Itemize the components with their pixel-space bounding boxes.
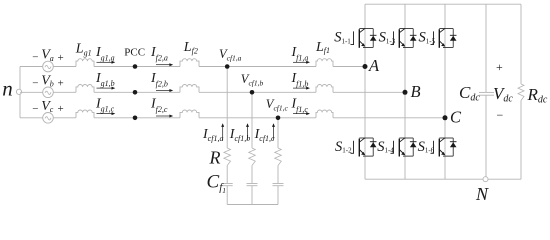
svg-text:+: + xyxy=(496,60,503,74)
svg-text:B: B xyxy=(411,82,421,101)
svg-text:+: + xyxy=(58,78,64,90)
svg-text:C: C xyxy=(450,108,462,127)
svg-text:−: − xyxy=(497,108,504,122)
svg-text:+: + xyxy=(58,103,64,115)
svg-text:n: n xyxy=(2,76,13,100)
svg-text:N: N xyxy=(475,184,489,204)
svg-text:PCC: PCC xyxy=(124,47,145,59)
svg-text:+: + xyxy=(58,52,64,64)
svg-text:R: R xyxy=(209,148,221,168)
svg-text:−: − xyxy=(32,77,38,89)
svg-text:−: − xyxy=(32,52,38,64)
svg-text:A: A xyxy=(368,56,380,75)
svg-text:−: − xyxy=(32,103,38,115)
